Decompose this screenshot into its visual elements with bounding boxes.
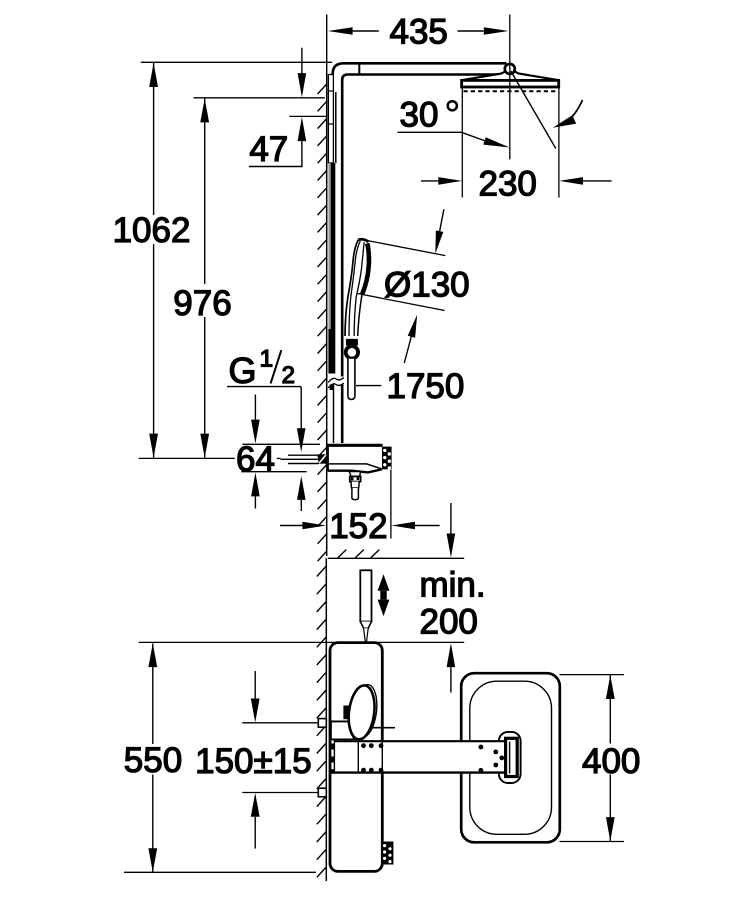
dim 976 line lower (204, 317, 206, 458)
dim 1062 top reference line (141, 61, 332, 63)
dim 1062 bottom arrowhead (149, 434, 158, 458)
hand shower ball joint ring (346, 346, 358, 358)
label G half leader arrowhead (297, 428, 306, 452)
dim 435 right arrowhead (484, 27, 509, 35)
dim 152 line left tail (280, 525, 303, 527)
drill gauge shoulder (360, 622, 371, 629)
dim 400 bottom arrowhead (606, 817, 615, 841)
svg-text:1750: 1750 (387, 367, 465, 406)
dim 64 left lower arrow tail (254, 496, 256, 508)
depth double arrow stem (380, 591, 386, 600)
outlet tube lower (352, 488, 359, 500)
dim 976 reference line (194, 97, 325, 99)
hand shower face dark band (362, 243, 369, 294)
dim 230 line left (421, 180, 438, 182)
dim 30deg leader (398, 132, 489, 142)
ball joint at arm end (505, 64, 515, 74)
body right edge through arm (381, 741, 383, 772)
svg-text:min.: min. (420, 566, 486, 605)
dim 230 line right (583, 180, 612, 182)
hand shower collar (346, 339, 358, 346)
svg-text:64: 64 (236, 440, 275, 479)
hand shower inner line 2 (354, 242, 364, 336)
dim dia130 lower arrow shaft (404, 332, 412, 363)
degree symbol (448, 101, 457, 110)
dim 976 top arrowhead (200, 98, 209, 122)
holder slot outer (499, 732, 521, 783)
dim dia130 lower arrowhead (408, 315, 418, 338)
dim dia130 upper extension line (364, 240, 445, 256)
dim 64 bottom line (241, 471, 306, 473)
svg-text:1: 1 (260, 345, 274, 372)
hand shower top cap (358, 239, 368, 242)
dim 435 left arrowhead (328, 27, 353, 35)
head tilt axis line (511, 71, 556, 149)
dim 64 left upper arrowhead (251, 420, 260, 444)
dim 30deg leader arrowhead (483, 137, 509, 147)
drill gauge needle (364, 628, 369, 646)
dim 47 lower arrow tail (301, 141, 303, 166)
bracket plate inner (470, 681, 552, 834)
pipe break squiggle 1 (328, 378, 344, 383)
shower head rim plate (462, 80, 559, 87)
label G half leader tail (300, 387, 302, 429)
arm joint ring near elbow (358, 63, 360, 74)
reference line y642 (139, 641, 465, 643)
svg-text:G: G (229, 350, 257, 391)
mixer body lower (330, 643, 382, 872)
thermostat cap white diamonds (383, 449, 391, 470)
dim min200 upper arrowhead (447, 534, 456, 558)
dim 64 left upper arrow tail (254, 395, 256, 421)
dim 47 upper arrow tail (301, 48, 303, 74)
dim 64 right lower arrowhead (297, 476, 306, 500)
dim 1062 line lower (153, 244, 155, 458)
dim 976 bottom arrowhead (200, 434, 209, 458)
svg-text:550: 550 (124, 741, 182, 780)
thermostat body left edge (327, 445, 329, 471)
dim 47 lower reference line (289, 115, 326, 117)
shower head spray face dashed (464, 90, 558, 92)
supply stub bottom edge (288, 463, 319, 465)
dim 400 line lower (609, 775, 611, 841)
arm screw dots right (479, 745, 505, 773)
dim 150 bottom line (242, 792, 317, 794)
thermostat cap hatched (382, 447, 392, 470)
svg-text:435: 435 (389, 13, 447, 52)
thermostat body outer bottom (328, 469, 382, 472)
slide rail gray stripe (328, 163, 330, 329)
arm bottom edge (331, 771, 508, 773)
dim 400 bottom line (560, 841, 624, 843)
outlet nut mark right (357, 477, 360, 480)
dim 47 lower arrowhead (298, 117, 307, 141)
dim min200 lower arrowhead (447, 643, 456, 667)
pivot housing line (372, 727, 395, 729)
wall bracket strip (328, 75, 333, 164)
svg-text:47: 47 (249, 130, 288, 169)
pipe left edge above rail (335, 92, 337, 163)
dim 230 right arrowhead (559, 177, 583, 185)
arm white fill (334, 740, 509, 773)
ceiling line (328, 557, 464, 559)
dim 400 line upper (609, 675, 611, 743)
dim 976 line upper (204, 98, 206, 284)
hand shower left edge (345, 240, 358, 336)
supply square lower (318, 788, 326, 797)
dim 550 top arrowhead (148, 643, 157, 667)
dim 1062 line upper (153, 63, 155, 215)
holder slot inner block (506, 738, 518, 776)
slide rail dark bar lower (328, 329, 335, 374)
arm top edge (334, 740, 509, 742)
dim 152 left arrowhead (302, 522, 326, 530)
dim 230 right extension (558, 88, 560, 198)
dim 1062 top arrowhead (149, 63, 158, 87)
outlet tube upper (351, 482, 359, 488)
holder slot inner line (509, 742, 511, 774)
svg-text:976: 976 (173, 284, 231, 323)
dim 435 line right (458, 30, 484, 32)
supply wall fitting (318, 454, 326, 463)
hose left edge (347, 359, 349, 396)
knob escutcheon (331, 721, 354, 739)
dim 435 right extension and head centerline (509, 15, 511, 160)
dim 230 left arrowhead (438, 177, 462, 185)
arm pivot block left edge (333, 742, 335, 771)
svg-text:200: 200 (420, 603, 478, 642)
dim 400 top line (560, 674, 624, 676)
svg-text:150±15: 150±15 (195, 742, 312, 781)
dim 550 bottom reference line (124, 871, 316, 873)
rail end cap below break (330, 385, 334, 391)
dim 152 right arrowhead (391, 522, 415, 530)
hand shower right edge below face (358, 295, 362, 336)
pipe left edge below break (333, 385, 335, 444)
dim 64 right lower arrow tail (300, 500, 302, 511)
hose white fill (347, 359, 355, 399)
wall hatch upper (318, 84, 327, 561)
knob stem (343, 706, 352, 720)
svg-text:30: 30 (400, 96, 439, 135)
chain centerline left segment (139, 457, 235, 459)
chain centerline right segment (277, 457, 281, 459)
outlet block side view (381, 842, 393, 865)
slide rail dark bar (331, 163, 336, 329)
dim 550 bottom arrowhead (148, 848, 157, 872)
supply stub centerline (281, 458, 327, 460)
dim 435 left extension (326, 15, 328, 75)
svg-text:400: 400 (582, 742, 640, 781)
supply stub top edge (288, 454, 319, 456)
dim 152 line right tail (415, 525, 440, 527)
outlet trapezoid (349, 472, 360, 477)
ceiling hatch (338, 550, 380, 558)
wall line upper view (326, 74, 328, 556)
wall line lower view (325, 558, 327, 881)
drill gauge body (360, 570, 371, 621)
arm end cap (507, 742, 510, 772)
dim dia130 upper arrowhead (435, 231, 443, 254)
hose right edge (354, 359, 356, 396)
hand shower body fill (345, 239, 370, 336)
supply wall fitting slash (319, 455, 326, 463)
dim 435 line left (353, 30, 379, 32)
dim 230 left extension (461, 88, 463, 198)
outlet block white diamonds (383, 844, 392, 863)
arm screw dots left (361, 743, 383, 772)
curved tilt arrow (565, 100, 583, 124)
depth double arrow up (378, 574, 390, 591)
dim 47 shelf line (249, 166, 303, 168)
svg-text:2: 2 (282, 362, 295, 389)
dim dia130 upper arrow shaft (439, 209, 444, 235)
dim 150 upper arrowhead (251, 699, 260, 723)
curved tilt arrowhead (553, 115, 576, 128)
label G half shelf (227, 386, 301, 388)
dim 1750 leader (356, 385, 381, 387)
dim 47 upper arrowhead (298, 73, 307, 97)
shower head cone top (462, 72, 559, 80)
dim 64 left lower arrowhead (251, 473, 260, 497)
outlet nut mark left (351, 477, 354, 480)
bracket strip tick 2 (328, 123, 333, 125)
dim 152 right extension (390, 470, 392, 539)
dim 550 line upper (152, 644, 154, 745)
hand shower inner line 1 (349, 241, 360, 336)
dim 150 top line (242, 722, 317, 724)
riser pipe inner edge with elbow (342, 75, 505, 444)
dim min200 upper arrow tail (450, 503, 452, 534)
dim 64 top line (242, 443, 320, 445)
wall hatch lower (317, 566, 327, 877)
hose bottom cap (348, 396, 355, 399)
wall marks left of arm block (331, 744, 335, 750)
dim 550 line lower (152, 775, 154, 873)
pipe break squiggle 2 (328, 383, 344, 388)
depth double arrow down (378, 600, 390, 617)
thermostat body top edge (327, 444, 382, 447)
bracket strip tick 1 (328, 90, 333, 92)
svg-text:230: 230 (478, 165, 536, 204)
pipe break gap (328, 377, 344, 385)
svg-text:Ø130: Ø130 (384, 266, 470, 305)
svg-text:152: 152 (329, 507, 387, 546)
knob disc (346, 684, 378, 741)
outlet nut (350, 476, 361, 481)
dim 150 upper arrow tail (254, 671, 256, 699)
arm pivot block right edge (357, 741, 359, 772)
dim 150 lower arrow tail (254, 817, 256, 849)
knob disc rim arc (363, 685, 377, 736)
label G half slash (271, 350, 282, 383)
dim dia130 lower extension line (357, 293, 445, 310)
riser pipe outer edge with elbow (333, 63, 507, 92)
svg-text:1062: 1062 (113, 211, 191, 250)
dim 400 top arrowhead (606, 675, 615, 699)
thermostat body inner bottom (328, 464, 382, 469)
bracket plate outer (461, 673, 560, 842)
dim 150 lower arrowhead (251, 793, 260, 817)
dim min200 lower arrow tail (450, 667, 452, 692)
supply square upper (318, 719, 326, 728)
